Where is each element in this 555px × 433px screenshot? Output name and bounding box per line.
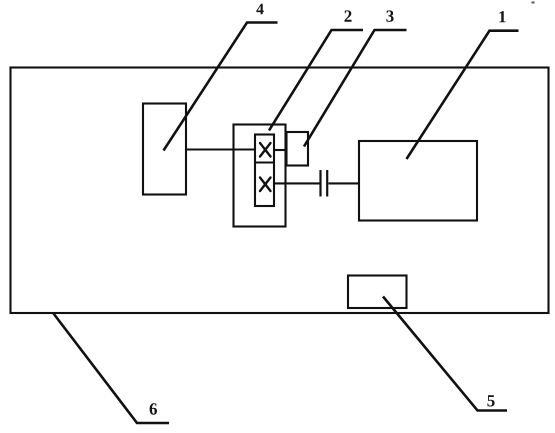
outer enclosure box 6 xyxy=(11,68,549,314)
wire block4 to block2 xyxy=(186,148,255,150)
block 3 (small box) xyxy=(287,132,309,166)
label 4 xyxy=(256,4,263,15)
block 2 outer housing xyxy=(234,125,286,227)
leader line 3 xyxy=(304,30,407,147)
wire inner box to block3 xyxy=(274,149,287,151)
label 3 xyxy=(386,10,393,22)
leader line 5 xyxy=(383,297,507,411)
X mark upper xyxy=(260,143,271,157)
coupling plate left xyxy=(319,170,321,197)
label 5 xyxy=(487,395,494,406)
label 2 xyxy=(345,10,352,21)
leader line 4 xyxy=(164,23,278,151)
leader line 6 xyxy=(54,314,170,424)
block 5 (bottom box) xyxy=(348,276,407,309)
scan speck top right xyxy=(532,2,535,4)
leader line 1 xyxy=(407,31,519,159)
inner shaft box of block 2 xyxy=(255,135,274,207)
label 1 xyxy=(499,11,505,22)
block 1 (big right box) xyxy=(359,141,477,221)
label 6 xyxy=(150,403,157,415)
coupling plate right xyxy=(326,170,328,197)
divider of inner shaft box xyxy=(255,161,274,163)
wire coupling to block1 xyxy=(329,182,360,184)
leader line 2 xyxy=(269,30,363,131)
block 4 (left tall box) xyxy=(143,104,186,195)
wire inner box to coupling xyxy=(274,182,320,184)
X mark lower xyxy=(260,178,271,192)
